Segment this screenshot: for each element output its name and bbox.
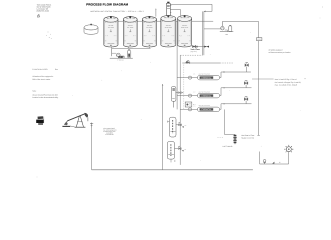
svg-text:HEATER TREATER: HEATER TREATER <box>199 105 211 107</box>
wire: pump suction from double pipes <box>204 28 220 30</box>
treater unit row 2 <box>177 81 252 98</box>
svg-text:The Leased Well: The Leased Well <box>103 127 115 130</box>
svg-text:LC: LC <box>185 125 187 127</box>
scan noise speckles <box>72 32 300 161</box>
valve box on main vent riser <box>257 38 262 41</box>
tank T2 <box>123 16 137 47</box>
svg-text:OIL TANK: OIL TANK <box>146 27 152 29</box>
vapor pump group <box>220 22 234 32</box>
svg-text:CHEMICAL: CHEMICAL <box>202 76 212 79</box>
treater unit row 1 <box>177 63 251 80</box>
wire: oil outlet drop from treater 3 <box>224 109 235 134</box>
wire: main vertical vent line <box>258 22 260 136</box>
svg-text:OIL TANK: OIL TANK <box>108 27 114 29</box>
svg-text:400 BBL: 400 BBL <box>182 25 188 27</box>
svg-text:(608) 555-0134: (608) 555-0134 <box>37 9 49 12</box>
svg-text:fuel control oil began Top 1 a: fuel control oil began Top 1 and 09, <box>275 81 302 84</box>
wire: column overhead line to right <box>170 3 212 5</box>
svg-text:max. no outlets 27-01, 60sq ft: max. no outlets 27-01, 60sq ft <box>275 83 298 86</box>
title block text <box>37 3 52 12</box>
wellhead note <box>103 127 117 136</box>
squat tank top nozzle <box>90 24 92 26</box>
svg-text:Rev: Rev <box>55 68 58 71</box>
svg-text:WTR TANK: WTR TANK <box>165 27 172 29</box>
wire: riser at T3/T4 with arrowhead <box>155 9 157 16</box>
tank T4 <box>161 15 176 47</box>
wire: downcomer 2 <box>179 55 181 165</box>
svg-text:Note:: Note: <box>32 90 37 93</box>
wire: column side line to T5 <box>170 10 180 16</box>
svg-text:LACT Unit 4B: LACT Unit 4B <box>223 145 233 148</box>
dark smudge pump skid <box>118 56 123 58</box>
wire: drop at x213 <box>204 4 212 11</box>
wire: T5 outlet to vent pipes <box>192 46 209 48</box>
svg-text:CHEMICAL: CHEMICAL <box>202 108 212 111</box>
wire: vapor pump discharge header <box>222 21 258 23</box>
wire: flowline from wellhead <box>91 128 93 170</box>
svg-text:400 BBL: 400 BBL <box>147 25 153 27</box>
svg-text:HEATER TREATER: HEATER TREATER <box>199 91 211 93</box>
svg-text:All tanks will be equipped to: All tanks will be equipped to <box>32 75 53 78</box>
svg-text:400 BBL: 400 BBL <box>128 25 134 27</box>
wire: bottom flowline <box>92 169 253 171</box>
flare check valve <box>272 162 274 164</box>
small meter box <box>185 102 195 107</box>
pumpjack <box>62 113 88 127</box>
tank T1 <box>104 16 118 47</box>
separator vessel V2 <box>168 117 187 137</box>
wire: plant boundary left vertical <box>162 84 164 170</box>
left note C <box>32 90 59 100</box>
treater unit row 3 <box>180 97 251 112</box>
right note 2 with leader <box>252 78 274 80</box>
vapor recovery column above T4 <box>166 2 171 17</box>
tank T3 <box>142 16 156 47</box>
svg-text:Above Ground Flow lines into O: Above Ground Flow lines into Old <box>32 93 57 96</box>
flare knockout leg <box>260 152 289 165</box>
svg-text:w/ flame arrestors per header: w/ flame arrestors per header <box>269 51 291 54</box>
svg-text:NORTHERN UNIT CENTRAL TANK BAT: NORTHERN UNIT CENTRAL TANK BATTERY — SIT… <box>90 10 144 13</box>
LACT valve stack <box>233 134 236 144</box>
svg-text:CHEMICAL: CHEMICAL <box>202 94 212 97</box>
wire: tank shoulder vent header <box>111 20 213 22</box>
svg-text:V-2: V-2 <box>193 92 195 94</box>
wellhead symbol <box>90 123 93 128</box>
svg-text:OIL TANK: OIL TANK <box>127 27 133 29</box>
svg-text:Header (1 1/2 in): Header (1 1/2 in) <box>241 137 254 140</box>
tank T5 <box>178 15 192 47</box>
dark stamp blob <box>36 116 44 125</box>
wire: downcomer 1 <box>176 21 178 109</box>
svg-text:95% of the turn in water.: 95% of the turn in water. <box>32 78 51 81</box>
svg-text:WTR TANK: WTR TANK <box>181 27 188 29</box>
svg-text:P-10476-00-01-PFD: P-10476-00-01-PFD <box>32 68 48 71</box>
svg-text:P-101 A/B: P-101 A/B <box>117 60 123 62</box>
left note A: drawing number <box>32 68 58 71</box>
svg-text:LC: LC <box>184 149 186 151</box>
svg-text:PROCESS FLOW DIAGRAM: PROCESS FLOW DIAGRAM <box>86 3 128 7</box>
svg-text:HEATER TREATER: HEATER TREATER <box>199 73 211 75</box>
svg-text:Item 14 and 15 Rig 4. Size of: Item 14 and 15 Rig 4. Size of <box>275 78 297 81</box>
valve under T5 <box>193 45 196 48</box>
left note B <box>32 75 53 81</box>
gun barrel vessel <box>171 87 183 108</box>
svg-text:location levels demonstrated u: location levels demonstrated utility. <box>32 96 59 99</box>
flare stack <box>288 152 290 164</box>
wire: dashed recycle line <box>183 65 185 110</box>
wire: dashed link from double pipes to downcomer <box>180 54 202 56</box>
speckles <box>37 7 323 178</box>
separator vessel V3 <box>167 142 186 163</box>
tank farm pump skid below T1/T2 <box>110 47 151 59</box>
svg-text:M-1: M-1 <box>193 104 196 106</box>
svg-text:V-1: V-1 <box>193 74 195 76</box>
svg-text:VRU: VRU <box>225 33 228 36</box>
right note 1 <box>269 48 291 54</box>
lower right note at vent end <box>241 134 254 139</box>
tank texture overlay <box>105 18 191 44</box>
flare pump <box>263 160 266 165</box>
svg-text:400 BBL: 400 BBL <box>108 25 114 27</box>
svg-text:400 BBL: 400 BBL <box>166 25 172 27</box>
squat tank (water tank) <box>84 25 98 35</box>
wire: manifold with arrow and valve <box>182 62 220 64</box>
flare tip <box>284 145 293 152</box>
wire: double vertical pipes <box>203 11 204 55</box>
svg-text:Tank Farm: Tank Farm <box>190 48 200 51</box>
signature mark <box>37 14 40 17</box>
